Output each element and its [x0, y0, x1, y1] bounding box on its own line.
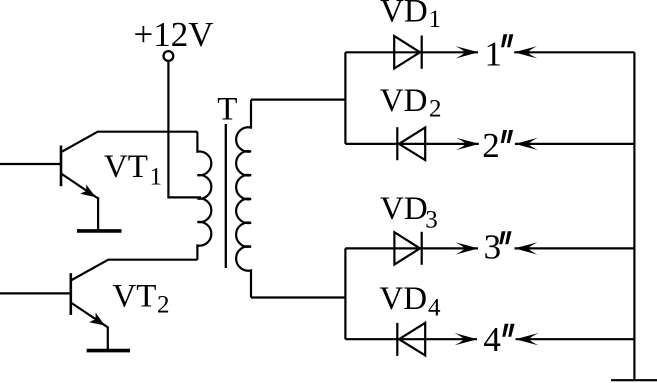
svg-text:VT: VT: [112, 278, 156, 314]
svg-text:2: 2: [429, 96, 442, 123]
svg-text:2: 2: [482, 126, 500, 165]
svg-text:4: 4: [483, 320, 501, 359]
svg-text:VD: VD: [380, 191, 428, 227]
svg-text:T: T: [217, 92, 237, 128]
svg-text:1: 1: [485, 35, 503, 74]
svg-text:VD: VD: [380, 0, 428, 29]
svg-text:4: 4: [428, 294, 441, 321]
svg-text:+12V: +12V: [134, 15, 214, 54]
svg-text:1: 1: [150, 164, 163, 191]
svg-text:1: 1: [429, 6, 442, 33]
svg-text:VD: VD: [379, 281, 427, 317]
svg-text:3: 3: [484, 227, 502, 266]
svg-text:3: 3: [425, 207, 438, 234]
svg-text:VT: VT: [104, 149, 148, 185]
svg-text:VD: VD: [380, 83, 428, 119]
svg-text:2: 2: [157, 292, 170, 319]
